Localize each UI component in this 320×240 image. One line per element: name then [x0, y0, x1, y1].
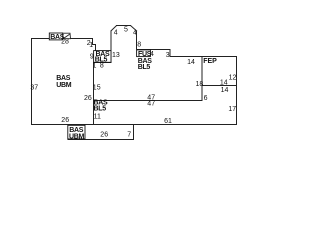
wire: bay right diagonal (4 ft)	[131, 26, 138, 32]
wire: interior vertical x=93 (15 + 11 ft)	[93, 62, 95, 125]
label box FUS	[137, 50, 152, 58]
svg-text:8: 8	[137, 42, 141, 49]
wire: top edge to right side (14 ft)	[170, 56, 238, 58]
svg-text:61: 61	[164, 118, 172, 125]
wire: interior horizontal y=100 (47 ft)	[93, 100, 203, 102]
svg-text:26: 26	[61, 117, 69, 124]
node: small trapezoid bay at top edge	[62, 33, 71, 39]
svg-text:1: 1	[92, 63, 96, 70]
svg-text:1: 1	[89, 42, 93, 49]
svg-text:11: 11	[94, 113, 101, 120]
wire: porch left edge (7 ft)	[67, 125, 69, 140]
svg-text:26: 26	[100, 132, 108, 139]
svg-text:4: 4	[150, 51, 154, 58]
svg-text:47: 47	[147, 100, 155, 107]
svg-text:8: 8	[100, 63, 104, 70]
svg-text:3: 3	[166, 52, 170, 59]
wire: porch bottom edge (26 ft)	[68, 139, 135, 141]
svg-text:13: 13	[112, 52, 120, 59]
label BAS/BL5 under FUS	[138, 58, 153, 71]
wire: bay top edge (5 ft)	[116, 25, 131, 27]
svg-text:12: 12	[229, 75, 237, 82]
wire: top step horizontal (1 ft)	[92, 44, 96, 46]
wire: FEP left vertical (18 / 6 ft)	[201, 56, 203, 101]
wire: FUS top horizontal (4 ft)	[137, 49, 171, 51]
wire: bay left vertical (13 ft)	[110, 31, 112, 63]
svg-text:26: 26	[84, 95, 92, 102]
svg-text:17: 17	[228, 106, 236, 113]
svg-text:4: 4	[133, 30, 137, 37]
svg-text:9: 9	[90, 54, 94, 61]
svg-text:6: 6	[204, 95, 208, 102]
svg-text:5: 5	[124, 27, 128, 34]
label box BAS/UBM (bottom porch)	[68, 125, 85, 140]
wire: left edge of left section (37 ft)	[31, 38, 33, 125]
wire: top edge of left section (28 ft)	[31, 38, 93, 40]
svg-text:18: 18	[196, 81, 204, 88]
label BAS/BL5 (lower middle)	[94, 100, 109, 113]
svg-text:UBM: UBM	[69, 133, 85, 140]
svg-text:14: 14	[187, 59, 195, 66]
wire: porch right edge (7 ft)	[133, 125, 135, 140]
svg-text:7: 7	[127, 132, 131, 139]
label box BAS (top left)	[49, 33, 64, 41]
svg-text:14: 14	[221, 87, 229, 94]
svg-text:FEP: FEP	[203, 58, 217, 65]
svg-text:14: 14	[220, 79, 228, 86]
label box BAS/BL5 (upper middle)	[94, 51, 111, 64]
wire: right edge (12 + 17 ft)	[236, 56, 238, 125]
wire: FEP bottom horizontal (14 ft)	[202, 85, 237, 87]
wire: bay right vertical (8 ft)	[136, 31, 138, 50]
svg-text:BL5: BL5	[138, 64, 151, 71]
svg-text:UBM: UBM	[56, 82, 72, 89]
svg-text:BL5: BL5	[94, 106, 107, 113]
svg-text:15: 15	[93, 85, 101, 92]
svg-text:37: 37	[30, 84, 38, 91]
wire: long bottom edge (26 + 61 ft)	[31, 124, 237, 126]
wire: step down right of FUS (3 ft)	[169, 49, 171, 57]
svg-text:4: 4	[114, 30, 118, 37]
wire: bottom of mid section y=62 (1 + 8 ft)	[93, 62, 111, 64]
label BAS/UBM (large left section)	[56, 75, 72, 89]
svg-text:28: 28	[61, 38, 69, 45]
wire: top step vertical (2 ft)	[92, 38, 94, 45]
wire: mid vertical at x=95 (9 ft)	[95, 44, 97, 63]
wire: bay left diagonal (4 ft)	[111, 26, 117, 32]
